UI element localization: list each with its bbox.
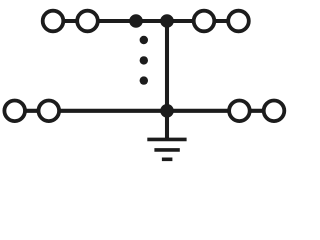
terminal circle 1 (top-left outer) [43,11,64,32]
terminal circle 8 (bottom-right outer) [264,101,285,122]
terminal circle 4 (top-right outer) [228,11,249,32]
wire: dotted bridge shaft, dot 3 [140,76,148,84]
terminal circle 7 (bottom-right inner) [229,101,250,122]
ground: bar 1 [147,138,186,142]
wire: dotted bridge shaft, dot 1 [140,36,148,44]
node: junction bottom rail / vertical conductor [160,104,174,118]
wire: top rail [53,19,239,23]
node: junction top rail / vertical conductor [160,14,174,28]
terminal circle 6 (bottom-left inner) [39,101,60,122]
node: bridge contact point on top rail [129,14,143,28]
terminal circle 5 (bottom-left outer) [4,101,25,122]
wire: bottom rail [15,109,274,113]
ground: bar 3 [162,158,173,162]
wire: dotted bridge shaft, dot 2 [140,56,148,64]
terminal circle 3 (top-right inner) [194,11,215,32]
ground: bar 2 [154,148,179,152]
wire: vertical PE conductor [165,21,169,139]
terminal circle 2 (top-left inner) [77,11,98,32]
